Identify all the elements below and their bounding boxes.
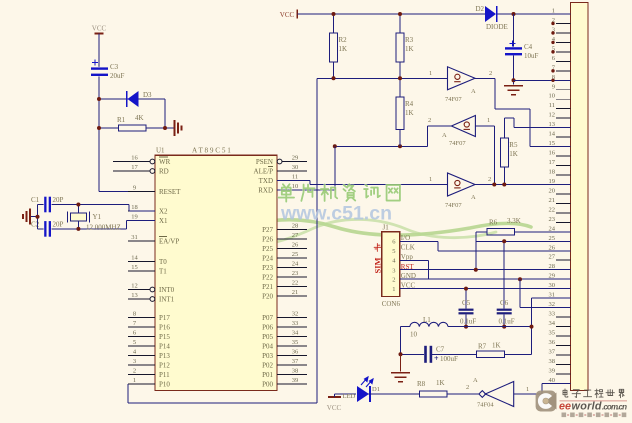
svg-text:74F04: 74F04 <box>477 402 494 409</box>
svg-text:10: 10 <box>410 331 418 339</box>
svg-text:27: 27 <box>549 254 556 261</box>
svg-text:12: 12 <box>131 283 138 290</box>
svg-text:16: 16 <box>131 155 138 162</box>
svg-text:20P: 20P <box>53 196 64 204</box>
svg-text:P04: P04 <box>262 343 273 351</box>
svg-text:P03: P03 <box>262 352 273 360</box>
svg-text:38: 38 <box>292 368 299 375</box>
svg-text:2: 2 <box>489 70 492 77</box>
svg-text:1: 1 <box>429 176 432 183</box>
svg-text:35: 35 <box>549 329 556 336</box>
svg-text:D3: D3 <box>143 91 152 99</box>
svg-text:U1: U1 <box>156 147 165 155</box>
svg-text:C6: C6 <box>500 299 509 307</box>
svg-text:R7: R7 <box>478 343 487 351</box>
svg-text:30: 30 <box>549 282 556 289</box>
svg-text:1: 1 <box>552 8 555 15</box>
svg-text:14: 14 <box>131 255 138 262</box>
svg-text:C5: C5 <box>462 299 471 307</box>
svg-text:9: 9 <box>133 185 136 192</box>
svg-text:A: A <box>471 88 476 95</box>
svg-text:R6: R6 <box>489 219 498 227</box>
svg-text:P27: P27 <box>262 226 273 234</box>
svg-text:P13: P13 <box>159 352 170 360</box>
svg-text:P10: P10 <box>159 381 170 389</box>
svg-text:1: 1 <box>526 386 529 393</box>
svg-text:INT0: INT0 <box>159 286 175 294</box>
svg-text:40: 40 <box>549 377 556 384</box>
svg-text:2: 2 <box>392 277 395 284</box>
svg-text:14: 14 <box>549 131 556 138</box>
svg-text:PSEN: PSEN <box>256 158 273 166</box>
svg-text:35: 35 <box>292 339 299 346</box>
svg-text:C2: C2 <box>31 221 40 229</box>
svg-text:C7: C7 <box>436 346 445 354</box>
svg-text:ee: ee <box>559 400 571 412</box>
svg-text:T0: T0 <box>159 258 167 266</box>
svg-text:10uF: 10uF <box>524 52 539 60</box>
svg-text:39: 39 <box>292 377 299 384</box>
svg-text:32: 32 <box>292 311 299 318</box>
svg-text:D2: D2 <box>475 5 484 13</box>
svg-text:RXD: RXD <box>258 187 273 195</box>
svg-text:C4: C4 <box>524 43 533 51</box>
svg-text:A: A <box>471 194 476 201</box>
svg-text:11: 11 <box>292 174 298 181</box>
svg-text:L1: L1 <box>423 316 431 324</box>
svg-text:15: 15 <box>131 264 138 271</box>
svg-text:1K: 1K <box>405 109 414 117</box>
svg-text:34: 34 <box>292 330 299 337</box>
svg-text:29: 29 <box>549 273 556 280</box>
svg-text:RD: RD <box>159 168 169 176</box>
svg-text:VCC: VCC <box>280 11 295 19</box>
svg-text:P23: P23 <box>262 264 273 272</box>
svg-text:3: 3 <box>133 358 136 365</box>
svg-text:19: 19 <box>549 178 556 185</box>
svg-text:P14: P14 <box>159 343 170 351</box>
svg-text:15: 15 <box>549 140 556 147</box>
svg-text:0.1uF: 0.1uF <box>499 318 515 326</box>
svg-text:VCC: VCC <box>92 25 107 33</box>
svg-text:P02: P02 <box>262 362 273 370</box>
svg-text:D1: D1 <box>372 386 380 393</box>
svg-text:17: 17 <box>131 164 138 171</box>
svg-text:R4: R4 <box>405 100 414 108</box>
svg-text:1K: 1K <box>509 150 518 158</box>
svg-text:X2: X2 <box>159 208 168 216</box>
svg-text:27: 27 <box>292 232 299 239</box>
svg-text:26: 26 <box>292 242 299 249</box>
svg-text:P21: P21 <box>262 283 273 291</box>
svg-text:8: 8 <box>133 311 136 318</box>
svg-text:39: 39 <box>549 367 556 374</box>
svg-text:.com.cn: .com.cn <box>602 402 627 411</box>
svg-text:13: 13 <box>549 121 556 128</box>
svg-text:CLK: CLK <box>401 244 415 252</box>
svg-text:10: 10 <box>292 183 299 190</box>
svg-text:VCC: VCC <box>327 404 342 412</box>
svg-text:24: 24 <box>292 261 299 268</box>
svg-text:30: 30 <box>292 164 299 171</box>
svg-text:INT1: INT1 <box>159 296 175 304</box>
svg-text:RESET: RESET <box>159 188 181 196</box>
svg-text:5: 5 <box>392 248 395 255</box>
svg-text:Y1: Y1 <box>93 213 102 221</box>
svg-text:J1: J1 <box>383 224 390 232</box>
svg-text:ALE/P: ALE/P <box>254 168 274 176</box>
svg-text:A: A <box>442 132 447 139</box>
svg-text:25: 25 <box>549 235 556 242</box>
svg-text:21: 21 <box>292 289 299 296</box>
svg-text:74F07: 74F07 <box>449 140 466 147</box>
svg-text:A: A <box>473 377 478 384</box>
svg-text:2: 2 <box>488 176 491 183</box>
svg-text:18: 18 <box>549 168 556 175</box>
svg-text:SIM: SIM <box>373 257 383 273</box>
svg-text:DIODE: DIODE <box>486 23 508 31</box>
svg-text:17: 17 <box>549 159 556 166</box>
svg-text:TXD: TXD <box>259 177 273 185</box>
svg-text:22: 22 <box>292 280 299 287</box>
svg-text:LED: LED <box>343 393 356 400</box>
svg-text:28: 28 <box>549 263 556 270</box>
svg-text:P00: P00 <box>262 381 273 389</box>
svg-text:P25: P25 <box>262 245 273 253</box>
svg-text:EA/VP: EA/VP <box>159 238 179 246</box>
svg-text:37: 37 <box>549 348 556 355</box>
svg-text:29: 29 <box>292 155 299 162</box>
svg-text:1: 1 <box>133 377 136 384</box>
svg-text:www.c51.cn: www.c51.cn <box>280 203 392 225</box>
svg-text:23: 23 <box>549 216 556 223</box>
svg-text:2: 2 <box>466 384 469 391</box>
svg-text:P15: P15 <box>159 333 170 341</box>
svg-text:1K: 1K <box>436 379 445 387</box>
svg-text:R1: R1 <box>117 116 126 124</box>
svg-text:2: 2 <box>428 117 431 124</box>
svg-text:P11: P11 <box>159 371 170 379</box>
svg-text:2: 2 <box>133 368 136 375</box>
svg-text:31: 31 <box>549 292 556 299</box>
svg-text:32: 32 <box>549 301 556 308</box>
svg-text:world: world <box>572 400 602 412</box>
svg-text:R8: R8 <box>417 380 426 388</box>
svg-text:P20: P20 <box>262 293 273 301</box>
svg-text:33: 33 <box>292 320 299 327</box>
svg-text:24: 24 <box>549 225 556 232</box>
svg-text:R5: R5 <box>509 141 518 149</box>
svg-text:20uF: 20uF <box>110 72 125 80</box>
svg-text:11: 11 <box>549 102 555 109</box>
svg-text:3: 3 <box>392 267 395 274</box>
svg-text:74F07: 74F07 <box>445 202 462 209</box>
svg-text:1: 1 <box>429 70 432 77</box>
svg-text:T1: T1 <box>159 268 167 276</box>
svg-text:16: 16 <box>549 150 556 157</box>
svg-text:R3: R3 <box>405 36 414 44</box>
svg-text:3.3K: 3.3K <box>507 217 521 225</box>
svg-text:X1: X1 <box>159 217 168 225</box>
svg-text:P22: P22 <box>262 274 273 282</box>
svg-text:23: 23 <box>292 270 299 277</box>
svg-text:1K: 1K <box>492 342 501 350</box>
svg-text:25: 25 <box>292 251 299 258</box>
svg-text:20P: 20P <box>53 221 64 229</box>
svg-text:P12: P12 <box>159 362 170 370</box>
svg-text:WR: WR <box>159 158 171 166</box>
svg-text:34: 34 <box>549 320 556 327</box>
svg-text:19: 19 <box>131 214 138 221</box>
svg-text:P26: P26 <box>262 236 273 244</box>
svg-text:10: 10 <box>549 93 556 100</box>
svg-text:P17: P17 <box>159 314 170 322</box>
svg-text:R2: R2 <box>339 36 348 44</box>
svg-text:C3: C3 <box>110 63 119 71</box>
svg-text:13: 13 <box>131 292 138 299</box>
svg-text:P24: P24 <box>262 255 273 263</box>
svg-text:5: 5 <box>133 339 136 346</box>
svg-text:1: 1 <box>487 117 490 124</box>
svg-text:36: 36 <box>549 339 556 346</box>
svg-text:P16: P16 <box>159 324 170 332</box>
svg-text:0.1uF: 0.1uF <box>460 318 476 326</box>
svg-text:1K: 1K <box>339 45 348 53</box>
svg-text:33: 33 <box>549 311 556 318</box>
svg-text:9: 9 <box>552 83 555 90</box>
svg-text:18: 18 <box>131 204 138 211</box>
svg-text:100uF: 100uF <box>440 355 458 363</box>
svg-text:CON6: CON6 <box>382 300 401 308</box>
svg-text:38: 38 <box>549 358 556 365</box>
svg-text:36: 36 <box>292 349 299 356</box>
svg-text:P05: P05 <box>262 333 273 341</box>
svg-text:1K: 1K <box>405 45 414 53</box>
svg-text:A T 8 9 C 5 1: A T 8 9 C 5 1 <box>192 147 231 155</box>
svg-text:P07: P07 <box>262 314 273 322</box>
svg-text:26: 26 <box>549 244 556 251</box>
svg-text:+: + <box>434 354 439 363</box>
svg-text:P06: P06 <box>262 324 273 332</box>
svg-text:4K: 4K <box>135 114 144 122</box>
svg-text:74F07: 74F07 <box>445 96 462 103</box>
svg-text:31: 31 <box>131 234 138 241</box>
svg-text:22: 22 <box>549 206 556 213</box>
svg-text:12: 12 <box>549 112 556 119</box>
svg-text:37: 37 <box>292 358 299 365</box>
svg-text:1: 1 <box>392 286 395 293</box>
svg-text:P01: P01 <box>262 371 273 379</box>
svg-text:12.000MHZ: 12.000MHZ <box>86 224 121 232</box>
svg-text:21: 21 <box>549 197 556 204</box>
svg-text:20: 20 <box>549 187 556 194</box>
svg-text:C1: C1 <box>31 196 40 204</box>
